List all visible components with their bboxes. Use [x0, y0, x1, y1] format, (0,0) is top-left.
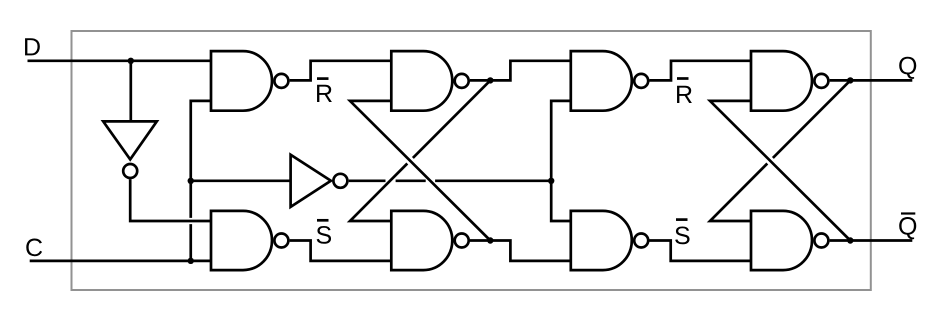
wire: cross-couple G3 output down to G4 upper input (hops at X centre) [350, 80, 490, 221]
node: Q junction [847, 77, 853, 83]
wire: C input line [30, 260, 211, 263]
NAND gate G2 (inputs D-bar, C) output bubble [274, 234, 288, 248]
wire: U1 output D-bar to gate G2 upper input [130, 179, 211, 221]
label Q output [899, 57, 916, 79]
NAND gate G4 (master latch bottom) [391, 211, 452, 270]
label overline of S-bar (first) [317, 219, 329, 222]
NAND gate G7 (output latch top) output bubble [814, 74, 828, 88]
node: C branch junction to inverter U2 [188, 178, 194, 184]
label overline of Q-bar output [901, 212, 915, 214]
inverter U1 output bubble [123, 164, 137, 178]
NAND gate G8 (output latch bottom) output bubble [814, 234, 828, 248]
wire: C-bar riser feeding gates G5 and G6 [551, 101, 571, 221]
NAND gate G3 (master latch top) [391, 51, 452, 111]
wire: G3 output to gate G5 upper input [470, 61, 571, 81]
node: Q-bar junction [847, 237, 853, 243]
NAND gate G4 (master latch bottom) output bubble [455, 234, 469, 248]
label overline of R-bar (first) [317, 77, 329, 80]
wire: G2 output S-bar to gate G4 lower input [290, 241, 392, 261]
NAND gate G2 (inputs D-bar, C) [211, 211, 272, 270]
label R of R-bar (second stage) [677, 86, 692, 103]
wire: U2 output C-bar to riser (broken at diagonal crossings) [349, 179, 552, 182]
NAND gate G8 (output latch bottom) [751, 211, 812, 270]
label D input [25, 38, 40, 55]
inverter U1 (makes D-bar, points down) [103, 121, 157, 159]
wire: G4 output to gate G6 lower input [470, 241, 571, 261]
NAND gate G3 (master latch top) output bubble [455, 74, 469, 88]
NAND gate G5 (slave top) [571, 51, 632, 111]
node: master latch Q junction [487, 77, 493, 83]
node: D branch junction [128, 58, 134, 64]
label R of R-bar (first stage) [317, 85, 332, 102]
wire: C branch to inverter U2 input [191, 179, 291, 182]
wire: D down to inverter U1 input [129, 61, 132, 122]
label overline of R-bar (second) [677, 77, 689, 80]
wire: C riser to gate G1 lower input (hops over D-bar wire) [191, 101, 211, 261]
enclosure box [72, 31, 871, 290]
node: master latch Q-bar junction [487, 237, 493, 243]
wire: Q-bar output line [830, 239, 913, 242]
wire: cross-couple Q down to G8 upper input (hops at X centre) [710, 80, 850, 221]
inverter U2 output bubble [333, 174, 347, 188]
node: C-bar distribution junction [548, 178, 554, 184]
label S of S-bar (second stage) [675, 227, 689, 245]
label overline of S-bar (second) [676, 218, 688, 221]
wire: cross-couple G4 output up to G3 lower input [350, 101, 490, 241]
wire: D input line [28, 59, 212, 62]
wire: G6 output S-bar2 to gate G8 lower input [649, 241, 751, 261]
NAND gate G1 (inputs D, C) output bubble [274, 74, 288, 88]
inverter U2 (clock inverter, points right) [291, 155, 331, 207]
NAND gate G1 (inputs D, C) [211, 51, 272, 111]
NAND gate G5 (slave top) output bubble [634, 74, 648, 88]
label S of S-bar (first stage) [317, 226, 331, 244]
wire: G5 output R-bar2 to gate G7 upper input [649, 61, 751, 81]
label Q of Q-bar output [899, 217, 916, 239]
wire: cross-couple Q-bar up to G7 lower input [710, 101, 850, 241]
NAND gate G7 (output latch top) [751, 51, 812, 111]
label C input [26, 239, 42, 257]
node: C line junction [188, 258, 194, 264]
NAND gate G6 (slave bottom) output bubble [634, 234, 648, 248]
NAND gate G6 (slave bottom) [571, 211, 632, 270]
wire: G1 output R-bar to gate G3 upper input [290, 61, 392, 81]
wire: Q output line [830, 79, 913, 82]
